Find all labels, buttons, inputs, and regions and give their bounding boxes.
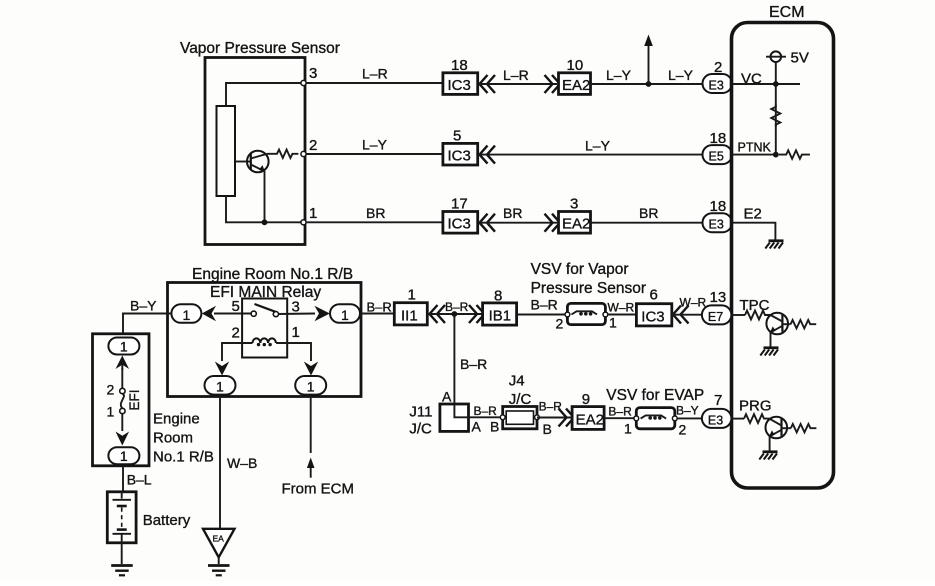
pin 3 terminal xyxy=(301,80,306,85)
chevrons right before EA2-9 xyxy=(559,409,575,427)
resistor PRG base xyxy=(744,414,770,423)
wire from ECM vertical xyxy=(310,395,312,453)
svg-text:1: 1 xyxy=(307,379,315,395)
wire E3 into ECM PRG xyxy=(731,418,744,420)
wire EA to ground xyxy=(218,557,220,564)
svg-text:B: B xyxy=(543,421,552,437)
svg-text:BR: BR xyxy=(639,205,658,221)
fuse EFI xyxy=(120,388,125,413)
svg-text:IB1: IB1 xyxy=(489,308,512,325)
arrow down EFI xyxy=(116,432,130,446)
vapor pressure sensor box xyxy=(205,58,305,245)
resistor TPC base xyxy=(745,311,771,320)
svg-text:W–R: W–R xyxy=(608,301,635,315)
svg-text:2: 2 xyxy=(107,382,115,398)
ground PRG chassis xyxy=(759,452,777,460)
svg-text:1: 1 xyxy=(216,379,224,395)
battery plates xyxy=(113,492,132,543)
svg-text:3: 3 xyxy=(570,196,578,213)
label Engine Room No.1 R/B side xyxy=(153,411,214,466)
svg-text:2: 2 xyxy=(232,325,240,342)
wire E2 to ground xyxy=(733,223,775,240)
svg-text:L–Y: L–Y xyxy=(585,138,611,154)
wire VC inside xyxy=(733,83,800,85)
chevrons left row1 xyxy=(480,75,496,93)
wire IC3 to E7 xyxy=(672,314,703,316)
arrow down pin2 xyxy=(215,362,229,376)
wire row1 EA2 to E3 xyxy=(591,83,704,85)
oval E3 PRG xyxy=(702,409,732,428)
svg-text:Engine Room No.1 R/B: Engine Room No.1 R/B xyxy=(192,266,353,283)
wire base xyxy=(235,161,251,163)
chevrons left row2 xyxy=(480,146,496,164)
wire 5V down to PTNK xyxy=(775,62,777,155)
wire to relay switch xyxy=(214,313,254,315)
switch contact left xyxy=(251,311,256,316)
wire inside J11 xyxy=(454,404,468,417)
wire TPC emitter down xyxy=(770,332,772,347)
svg-text:10: 10 xyxy=(567,57,584,74)
chevrons right row1 xyxy=(545,75,561,93)
svg-text:E3: E3 xyxy=(709,79,724,93)
svg-text:1: 1 xyxy=(408,287,416,304)
oval 1 EFI top xyxy=(108,338,139,355)
svg-text:VSV for Vapor: VSV for Vapor xyxy=(531,261,629,278)
transistor collector diagonal xyxy=(251,154,267,159)
wire row3 EA2 to E3 xyxy=(591,222,704,224)
svg-text:E7: E7 xyxy=(708,310,723,324)
resistor PTNK horizontal xyxy=(779,150,810,158)
connector IC3 pin17 box xyxy=(443,212,478,234)
pin 1 terminal xyxy=(301,220,306,225)
wire resistor bottom to pin1 rail xyxy=(226,196,302,222)
junction connector J11 box xyxy=(440,404,469,431)
wire fuse down xyxy=(121,414,123,431)
transistor emitter diagonal xyxy=(251,165,264,171)
connector II1 box xyxy=(394,303,427,325)
arrow up from ECM xyxy=(307,458,315,478)
svg-text:EA2: EA2 xyxy=(576,412,604,429)
wire EA2 to VSV2 xyxy=(604,417,636,419)
oval 1 bottom left xyxy=(205,376,236,395)
emitter arrowhead xyxy=(259,165,265,171)
svg-text:IC3: IC3 xyxy=(448,216,471,233)
svg-text:Room: Room xyxy=(153,430,193,447)
svg-text:2: 2 xyxy=(556,316,564,332)
chevrons right row3 xyxy=(545,214,561,232)
oval 1 relay right xyxy=(330,304,360,323)
chevrons right before IB1 xyxy=(469,305,485,323)
pin 2 terminal xyxy=(301,151,306,156)
wire to battery xyxy=(122,466,124,492)
oval 1 bottom right xyxy=(295,376,326,395)
svg-text:6: 6 xyxy=(650,287,658,304)
connector IC3 pin18 box xyxy=(443,73,478,95)
wire battery to ground xyxy=(121,543,123,564)
svg-text:J11: J11 xyxy=(409,404,432,421)
svg-text:L–Y: L–Y xyxy=(668,67,694,83)
svg-text:2: 2 xyxy=(679,422,687,438)
svg-text:B–R: B–R xyxy=(531,297,558,313)
svg-text:L–Y: L–Y xyxy=(362,137,388,153)
svg-text:8: 8 xyxy=(494,288,502,305)
wire row3 sensor to IC3 xyxy=(306,221,442,223)
svg-text:B–R: B–R xyxy=(608,405,632,419)
svg-text:EA2: EA2 xyxy=(562,77,590,94)
5V supply circle xyxy=(771,51,782,62)
svg-text:B–L: B–L xyxy=(127,472,152,488)
ground TPC chassis xyxy=(760,348,778,356)
wire VSV2 to E3 xyxy=(677,417,703,419)
wire E5 to PTNK junction xyxy=(732,154,776,156)
svg-text:5V: 5V xyxy=(791,50,809,67)
ground battery xyxy=(111,566,133,576)
svg-text:IC3: IC3 xyxy=(448,148,471,165)
svg-text:L–R: L–R xyxy=(503,67,529,83)
svg-text:EFI: EFI xyxy=(127,389,142,410)
wire pin3 internal xyxy=(226,83,302,106)
svg-text:1: 1 xyxy=(107,404,115,420)
wire coil pin2 xyxy=(222,343,253,361)
svg-text:ECM: ECM xyxy=(769,4,805,21)
transistor Q-PRG xyxy=(766,417,788,439)
svg-text:18: 18 xyxy=(451,57,468,74)
junction connector J4 box xyxy=(500,407,539,429)
wire switch to arrow xyxy=(278,313,315,316)
junction B-R xyxy=(452,311,458,317)
oval E3 row3 xyxy=(703,213,733,232)
junction VC xyxy=(773,81,779,87)
svg-text:PTNK: PTNK xyxy=(738,141,772,155)
svg-text:2: 2 xyxy=(714,59,722,76)
connector IC3 pin5 box xyxy=(443,143,478,165)
battery box xyxy=(107,492,136,543)
svg-text:A: A xyxy=(442,389,452,405)
connector IB1 box xyxy=(483,303,517,325)
wire to fuse xyxy=(121,368,123,389)
wire junction down to J11 xyxy=(453,314,455,405)
svg-text:7: 7 xyxy=(714,392,722,409)
resistor sensor-collector zigzag xyxy=(267,150,298,158)
connector EA2 pin10 box xyxy=(559,73,591,95)
svg-text:1: 1 xyxy=(183,307,191,323)
svg-text:From ECM: From ECM xyxy=(282,481,355,498)
transistor Q-TPC xyxy=(766,313,788,335)
svg-text:5: 5 xyxy=(453,128,461,145)
oval E3 row1 xyxy=(703,74,733,93)
svg-text:E3: E3 xyxy=(708,413,723,427)
svg-text:BR: BR xyxy=(366,205,385,221)
svg-text:J4: J4 xyxy=(509,373,525,390)
wire TPC collector out xyxy=(782,323,790,325)
svg-text:1: 1 xyxy=(120,448,128,464)
svg-text:1: 1 xyxy=(120,339,128,355)
svg-text:B–Y: B–Y xyxy=(130,298,157,314)
svg-text:E5: E5 xyxy=(709,150,724,164)
svg-text:IC3: IC3 xyxy=(641,308,664,325)
wire row3 IC3 to EA2 xyxy=(479,222,557,224)
relay coil xyxy=(253,338,276,346)
svg-text:EA: EA xyxy=(213,534,225,544)
svg-text:B–Y: B–Y xyxy=(676,404,699,418)
svg-text:W–B: W–B xyxy=(227,455,257,471)
ECM box xyxy=(732,23,834,489)
svg-text:A: A xyxy=(472,419,482,435)
svg-text:B–R: B–R xyxy=(367,300,392,315)
connector IC3 pin6 box xyxy=(636,304,671,326)
chevrons left row3 xyxy=(480,214,496,232)
svg-text:L–Y: L–Y xyxy=(606,67,632,83)
switch blade xyxy=(255,304,276,312)
svg-text:17: 17 xyxy=(451,196,468,213)
svg-text:18: 18 xyxy=(710,198,727,215)
svg-text:E3: E3 xyxy=(709,218,724,232)
junction PTNK xyxy=(773,152,779,158)
svg-text:PRG: PRG xyxy=(739,398,772,415)
wire emitter down xyxy=(264,171,266,222)
connector EA2 pin9 box xyxy=(572,407,604,430)
svg-text:18: 18 xyxy=(710,130,727,147)
svg-text:B–R: B–R xyxy=(445,300,469,314)
chevrons left after IC3-6 xyxy=(673,306,689,324)
wire W-B down to EA xyxy=(219,395,221,529)
svg-text:B–R: B–R xyxy=(539,400,563,414)
svg-text:B: B xyxy=(490,419,499,435)
switch contact right xyxy=(273,312,278,317)
VSV for EVAP solenoid xyxy=(634,408,677,429)
svg-text:9: 9 xyxy=(582,391,590,408)
svg-text:VSV for EVAP: VSV for EVAP xyxy=(606,387,704,404)
svg-text:1: 1 xyxy=(341,307,349,323)
svg-text:Battery: Battery xyxy=(143,512,191,529)
arrowhead up xyxy=(644,35,653,47)
arrow up EFI top xyxy=(116,356,130,371)
wire arrow up from junction xyxy=(648,44,650,84)
svg-text:5: 5 xyxy=(232,298,240,315)
wire coil pin1 xyxy=(276,343,311,361)
arrow down pin1 xyxy=(304,362,318,376)
resistor R-sensor xyxy=(217,106,236,196)
wire row1 sensor to IC3 xyxy=(306,82,442,84)
svg-text:1: 1 xyxy=(609,315,617,331)
resistor TPC collector xyxy=(791,320,817,328)
arrow left into oval xyxy=(202,306,216,321)
junction row1 xyxy=(646,81,652,87)
wire VSV1 to IC3 xyxy=(608,314,637,316)
svg-text:1: 1 xyxy=(309,205,317,222)
wire row2 IC3 to E5 xyxy=(479,154,703,156)
wire II1 to IB1 xyxy=(428,313,483,315)
oval 1 relay left xyxy=(171,304,201,323)
relay block box xyxy=(168,283,362,397)
wire PRG collector out xyxy=(782,427,791,429)
svg-text:W–R: W–R xyxy=(680,296,707,310)
wire IB1 to VSV1 xyxy=(517,314,568,316)
svg-text:B–R: B–R xyxy=(474,404,498,418)
ground E2 chassis xyxy=(765,241,783,249)
svg-text:1: 1 xyxy=(292,324,300,341)
wire J11 to J4 xyxy=(469,416,503,418)
oval 1 EFI bottom xyxy=(108,447,139,464)
svg-text:J/C: J/C xyxy=(409,421,432,438)
svg-text:B–R: B–R xyxy=(460,356,487,372)
triangle EA xyxy=(203,529,235,558)
svg-text:BR: BR xyxy=(503,205,522,221)
wire row2 sensor to IC3 xyxy=(306,153,442,155)
svg-text:EA2: EA2 xyxy=(562,216,590,233)
svg-text:Vapor Pressure Sensor: Vapor Pressure Sensor xyxy=(180,40,340,57)
VSV vapor pressure sensor solenoid xyxy=(565,303,608,324)
svg-text:No.1 R/B: No.1 R/B xyxy=(153,449,214,466)
svg-text:Engine: Engine xyxy=(153,411,200,428)
wire B-Y from relay xyxy=(123,314,171,335)
svg-text:Pressure Sensor: Pressure Sensor xyxy=(531,280,646,297)
transistor Q-sensor circle xyxy=(247,151,269,173)
EFI fuse block box xyxy=(93,334,150,466)
wire PRG emitter down xyxy=(769,436,771,451)
junction sensor emitter xyxy=(262,219,268,225)
wire E7 into ECM xyxy=(732,314,745,316)
svg-text:L–R: L–R xyxy=(362,66,388,82)
transistor base bar xyxy=(250,154,252,169)
wire relay to II1 xyxy=(361,313,394,315)
svg-text:13: 13 xyxy=(710,289,727,306)
svg-text:3: 3 xyxy=(309,65,317,82)
connector EA2 pin3 box xyxy=(559,212,591,234)
wire row1 IC3 to EA2 xyxy=(479,83,557,85)
svg-text:1: 1 xyxy=(624,421,632,437)
oval E5 row2 xyxy=(703,145,733,164)
relay inner box xyxy=(242,299,287,358)
chevrons left after II1 xyxy=(430,305,446,323)
arrow right into oval xyxy=(315,306,330,321)
svg-text:2: 2 xyxy=(309,137,317,154)
5V bar xyxy=(766,56,786,58)
resistor pullup vertical xyxy=(771,105,780,128)
wire J4 to EA2 xyxy=(537,417,572,419)
svg-text:E2: E2 xyxy=(744,206,762,223)
oval E7 xyxy=(702,305,732,324)
ground EA xyxy=(208,566,230,576)
svg-text:IC3: IC3 xyxy=(448,77,471,94)
resistor PRG collector xyxy=(791,424,817,432)
svg-text:II1: II1 xyxy=(401,307,418,324)
